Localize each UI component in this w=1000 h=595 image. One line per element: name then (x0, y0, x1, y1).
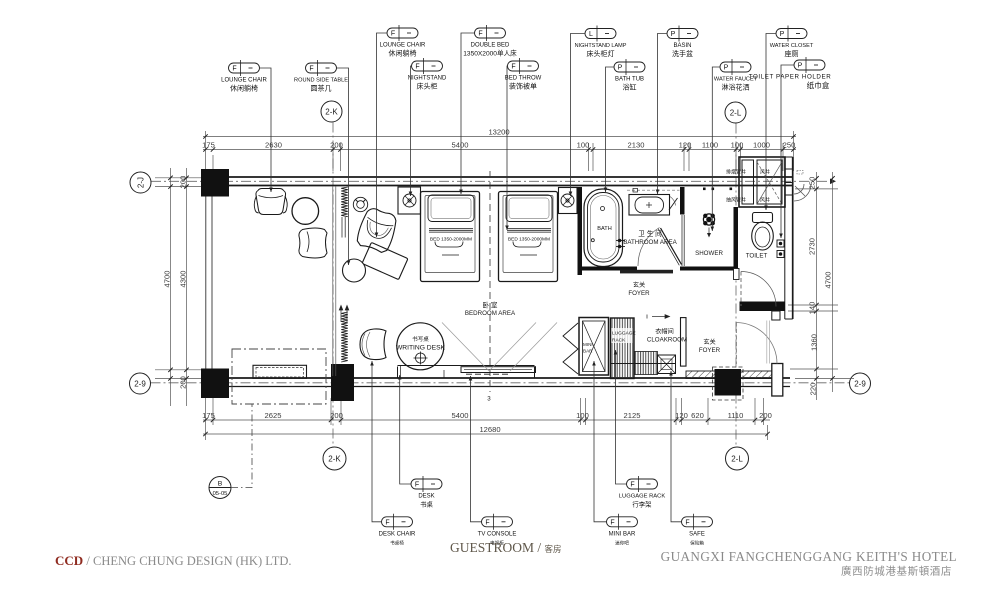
callout NIGHTSTAND LAMP (585, 29, 616, 39)
svg-text:BATH TUB: BATH TUB (615, 77, 644, 83)
svg-text:NIGHTSTAND LAMP: NIGHTSTAND LAMP (575, 43, 627, 49)
svg-text:120: 120 (679, 140, 692, 149)
leader BASIN (658, 34, 668, 195)
svg-text:05-05: 05-05 (213, 491, 228, 497)
leader ROUND SIDE TABLE (337, 68, 349, 265)
svg-text:620: 620 (691, 411, 704, 420)
svg-text:TOILET PAPER HOLDER: TOILET PAPER HOLDER (749, 74, 832, 81)
svg-text:淋浴花洒: 淋浴花洒 (722, 83, 750, 92)
svg-text:保险箱: 保险箱 (690, 539, 704, 546)
svg-text:F: F (630, 482, 634, 489)
svg-text:2125: 2125 (624, 411, 641, 420)
svg-text:175: 175 (202, 411, 215, 420)
wall top exterior (201, 177, 794, 186)
svg-text:RACK: RACK (612, 338, 626, 344)
svg-text:BASIN: BASIN (673, 43, 691, 49)
svg-text:书桌椅: 书桌椅 (390, 539, 404, 546)
desk counter along wall (398, 366, 535, 378)
svg-text:BAR: BAR (583, 349, 593, 354)
curtain arrows bottom (339, 306, 349, 323)
lounge chair 1 (top-left, facing down) (254, 189, 287, 215)
toilet door leaf+arc (741, 272, 776, 307)
callout DOUBLE BED (475, 28, 506, 38)
svg-text:100: 100 (577, 140, 590, 149)
svg-text:2-K: 2-K (328, 454, 341, 463)
curtain coil bottom (341, 312, 348, 362)
svg-text:F: F (485, 519, 489, 526)
svg-text:3: 3 (487, 396, 491, 403)
svg-text:FOYER: FOYER (699, 347, 721, 354)
callout LUGGAGE RACK (627, 479, 658, 489)
svg-text:TOILET: TOILET (746, 253, 768, 260)
luggage rack (611, 318, 635, 379)
svg-text:LUGGAGE: LUGGAGE (612, 331, 636, 337)
svg-text:F: F (415, 482, 419, 489)
nightstand lamp 2 (561, 194, 574, 207)
svg-text:休闲躺椅: 休闲躺椅 (230, 84, 258, 93)
wall entry hatched (corridor wall) (686, 371, 773, 379)
grid bubble 2-L bottom (726, 447, 749, 470)
svg-text:200: 200 (179, 176, 188, 189)
leader BATH TUB (606, 67, 615, 192)
leader DESK CHAIR (372, 361, 382, 522)
svg-text:休闲躺椅: 休闲躺椅 (389, 49, 417, 58)
svg-text:NIGHTSTAND: NIGHTSTAND (408, 76, 447, 82)
nightstand 2 (559, 188, 578, 214)
svg-text:FOYER: FOYER (628, 290, 650, 297)
svg-text:DOUBLE BED: DOUBLE BED (471, 43, 510, 49)
svg-text:卫 生 间: 卫 生 间 (638, 229, 662, 238)
svg-text:MINI BAR: MINI BAR (609, 531, 636, 537)
cloakroom right post (681, 318, 687, 367)
svg-text:床头柜灯: 床头柜灯 (587, 49, 615, 58)
callout BATH TUB (614, 62, 645, 72)
svg-text:BATH: BATH (597, 226, 612, 232)
svg-text:F: F (685, 519, 689, 526)
svg-text:SAFE: SAFE (689, 531, 705, 537)
grid bubble 2-9 bottom-right (850, 373, 871, 394)
minibar cabinet (579, 318, 609, 376)
basin counter (627, 188, 680, 215)
leader MINI BAR (594, 361, 607, 522)
nightstand lamp 1 (403, 194, 416, 207)
svg-text:200: 200 (179, 376, 188, 389)
leader NIGHTSTAND LAMP (571, 34, 586, 197)
stool (small round) (343, 259, 366, 282)
leader LOUNGE CHAIR 1 (260, 68, 272, 192)
svg-text:4700: 4700 (163, 271, 172, 288)
luggage rack label (612, 328, 633, 343)
svg-text:纸巾盒: 纸巾盒 (807, 80, 830, 90)
svg-text:TV CONSOLE: TV CONSOLE (478, 531, 517, 537)
svg-text:F: F (385, 519, 389, 526)
svg-text:行李架: 行李架 (632, 500, 652, 509)
column C3 bottom-middle (331, 364, 354, 401)
wall right exterior (785, 157, 793, 319)
bed 1 (421, 192, 480, 282)
callout WATER FAUCET (720, 62, 751, 72)
svg-text:100: 100 (731, 140, 744, 149)
wall toilet left (734, 207, 739, 271)
bathroom door leaf+arc (638, 228, 682, 267)
TV viewing lines (442, 323, 557, 372)
svg-text:WRITING DESK: WRITING DESK (396, 345, 446, 352)
svg-text:2-K: 2-K (325, 107, 338, 116)
svg-text:BED 1350-2000MM: BED 1350-2000MM (430, 236, 472, 242)
callout LOUNGE CHAIR 1 (229, 63, 260, 73)
svg-text:100: 100 (576, 411, 589, 420)
svg-text:5400: 5400 (452, 411, 469, 420)
svg-text:4300: 4300 (179, 271, 188, 288)
svg-text:MINI: MINI (583, 342, 593, 347)
svg-text:2130: 2130 (628, 140, 645, 149)
column C1 top-left (201, 169, 229, 197)
ottoman rotated (362, 242, 408, 279)
svg-text:BATHROOM AREA: BATHROOM AREA (623, 239, 677, 246)
grid bubble 2-9 bottom-left (130, 373, 151, 394)
svg-text:2-9: 2-9 (134, 379, 146, 388)
svg-text:250: 250 (808, 177, 817, 190)
leader TOILET PAPER HOLDER (781, 65, 794, 238)
svg-text:1110: 1110 (728, 411, 744, 420)
svg-text:B: B (218, 481, 223, 488)
desk chair (half-round) (360, 329, 386, 360)
wall toilet bottom (740, 302, 786, 312)
wall bathroom bottom (582, 267, 638, 271)
svg-text:P: P (671, 31, 676, 38)
svg-text:2630: 2630 (265, 140, 282, 149)
svg-text:5400: 5400 (452, 140, 469, 149)
TV on console (461, 367, 536, 375)
svg-text:风井: 风井 (760, 197, 770, 204)
wall bath/bedroom divider (578, 187, 583, 275)
svg-text:4700: 4700 (824, 272, 833, 289)
grid bubble 2-L top (725, 102, 746, 123)
svg-text:140: 140 (808, 302, 817, 315)
svg-text:2-L: 2-L (730, 108, 742, 117)
svg-text:排烟管井: 排烟管井 (726, 169, 746, 176)
leader TV CONSOLE (471, 376, 482, 522)
threshold bar foyer (620, 270, 673, 274)
svg-text:玄关: 玄关 (633, 281, 645, 289)
shower floor drain (703, 214, 714, 225)
svg-text:P: P (618, 65, 623, 72)
svg-text:LUGGAGE RACK: LUGGAGE RACK (619, 494, 666, 500)
bathtub (584, 189, 625, 267)
svg-text:F: F (610, 519, 614, 526)
dimension lines right vertical (788, 172, 854, 400)
dashed niche rect (detail ref) (232, 349, 326, 404)
svg-text:1000: 1000 (753, 140, 770, 149)
shaft top right (duct shaft) (739, 157, 785, 207)
bed 2 (499, 192, 558, 282)
svg-text:圆茶几: 圆茶几 (311, 84, 332, 93)
grid bubble 2-K bottom (323, 447, 346, 470)
wall shower left upper (680, 187, 685, 215)
svg-text:迷你吧: 迷你吧 (615, 539, 629, 546)
svg-text:床头柜: 床头柜 (417, 82, 438, 91)
svg-text:洗手盆: 洗手盆 (672, 49, 693, 58)
svg-text:200: 200 (330, 140, 343, 149)
callout SAFE (682, 517, 713, 527)
svg-text:ROUND SIDE TABLE: ROUND SIDE TABLE (294, 78, 348, 84)
dimension chain bottom (203, 398, 770, 440)
svg-text:装饰被单: 装饰被单 (509, 82, 537, 91)
svg-text:座厕: 座厕 (785, 49, 799, 58)
svg-text:风井: 风井 (760, 169, 770, 176)
grid bubble 2-K top (321, 101, 342, 122)
axis 2-J horizontal top (151, 123, 850, 448)
wall entry jamb lower-right (772, 364, 783, 397)
svg-text:2-L: 2-L (731, 454, 743, 463)
svg-text:抽风管井: 抽风管井 (726, 197, 746, 204)
callout ROUND SIDE TABLE (306, 63, 337, 73)
nightstand 1 (398, 187, 421, 214)
niche inner rect (253, 365, 307, 378)
svg-text:L: L (589, 31, 593, 38)
svg-text:CCD / CHENG CHUNG DESIGN (HK): CCD / CHENG CHUNG DESIGN (HK) LTD. (55, 553, 292, 568)
drain arrow (708, 228, 710, 236)
ceiling light (double circle) (353, 197, 367, 211)
axis arrow right end (830, 179, 836, 185)
svg-text:1350X2000单人床: 1350X2000单人床 (463, 49, 517, 58)
svg-text:LOUNGE CHAIR: LOUNGE CHAIR (221, 78, 267, 84)
svg-text:BEDROOM AREA: BEDROOM AREA (465, 310, 516, 317)
leader BED THROW (506, 66, 509, 230)
glass facade left (window line) (206, 197, 212, 369)
svg-text:WATER CLOSET: WATER CLOSET (770, 43, 814, 49)
AC duct symbol outside right wall (794, 171, 811, 202)
lounge chair 2 (facing right) (299, 228, 327, 258)
detail bubble B 05-05 (209, 477, 231, 499)
svg-text:廣西防城港基斯頓酒店: 廣西防城港基斯頓酒店 (841, 565, 952, 578)
leader WATER FAUCET (712, 67, 720, 231)
svg-text:1100: 1100 (702, 140, 718, 149)
svg-text:书写桌: 书写桌 (412, 335, 429, 343)
svg-text:BED THROW: BED THROW (505, 76, 542, 82)
svg-text:F: F (478, 31, 482, 38)
writing desk circle (397, 323, 444, 370)
entry door leaf+arc (736, 321, 777, 365)
svg-text:250: 250 (783, 140, 796, 149)
svg-text:F: F (309, 66, 313, 73)
svg-text:P: P (798, 63, 803, 70)
callout DESK (411, 479, 442, 489)
dimension lines left vertical (155, 168, 203, 406)
svg-text:DESK: DESK (418, 494, 434, 500)
leader DESK (400, 375, 411, 484)
wall shower bottom (680, 267, 734, 271)
leader NIGHTSTAND (411, 66, 412, 196)
svg-text:书桌: 书桌 (420, 500, 433, 509)
leader DOUBLE BED (461, 33, 475, 194)
window mullion line (333, 186, 336, 376)
leader LOUNGE CHAIR 2 (377, 33, 388, 237)
callout LOUNGE CHAIR 2 (387, 28, 418, 38)
svg-text:SHOWER: SHOWER (695, 250, 723, 257)
dimension chain top (203, 131, 796, 171)
svg-text:P: P (724, 65, 729, 72)
svg-text:175: 175 (202, 140, 215, 149)
svg-text:GUESTROOM / 客房: GUESTROOM / 客房 (450, 540, 562, 555)
column C2 bottom-left (201, 369, 229, 399)
callout MINI BAR (607, 517, 638, 527)
svg-text:2-J: 2-J (136, 177, 145, 188)
curtain rod lines (342, 217, 345, 238)
callout TOILET PAPER HOLDER (794, 60, 825, 70)
symmetry dashed line between beds (489, 171, 491, 392)
callout BED THROW (508, 61, 539, 71)
leader WATER CLOSET (766, 34, 776, 211)
svg-text:F: F (511, 64, 515, 71)
svg-text:200: 200 (759, 411, 772, 420)
svg-text:220: 220 (809, 383, 818, 396)
callout DESK CHAIR (382, 517, 413, 527)
callout BASIN (667, 29, 698, 39)
round side table (292, 198, 319, 225)
shower glass partition (682, 215, 684, 266)
lounge chair 3 rotated with ottoman (355, 206, 399, 254)
svg-text:F: F (391, 31, 395, 38)
callout WATER CLOSET (776, 29, 807, 39)
safe box (658, 355, 676, 374)
svg-text:2730: 2730 (808, 238, 817, 255)
svg-text:CLOAKROOM: CLOAKROOM (647, 337, 687, 344)
switch marks on bathroom wall (703, 188, 732, 191)
leader B 05-05 (dash-dot) (231, 404, 252, 488)
svg-text:12680: 12680 (479, 425, 500, 434)
svg-text:衣帽间: 衣帽间 (655, 328, 674, 336)
svg-text:DESK CHAIR: DESK CHAIR (379, 531, 416, 537)
svg-text:玄关: 玄关 (703, 338, 715, 346)
callout TV CONSOLE (482, 517, 513, 527)
svg-text:13200: 13200 (488, 127, 509, 136)
svg-text:浴缸: 浴缸 (623, 83, 637, 92)
cloakroom hanger area (611, 352, 676, 375)
grid bubble 2-J top-left (130, 172, 151, 193)
svg-text:F: F (232, 66, 236, 73)
minibar folding door (563, 323, 578, 374)
callout NIGHTSTAND (412, 61, 443, 71)
toilet fixture (752, 213, 774, 251)
leader SAFE (671, 371, 682, 522)
svg-text:BED 1350-2000MM: BED 1350-2000MM (508, 236, 550, 242)
leader LUGGAGE RACK (616, 350, 627, 484)
svg-text:2625: 2625 (265, 411, 282, 420)
svg-text:1360: 1360 (810, 334, 819, 351)
svg-text:F: F (415, 64, 419, 71)
svg-text:2-9: 2-9 (854, 379, 866, 388)
svg-text:P: P (780, 31, 785, 38)
toilet paper holders (777, 240, 784, 258)
svg-text:LOUNGE CHAIR: LOUNGE CHAIR (380, 43, 426, 49)
svg-text:GUANGXI FANGCHENGGANG KEITH'S: GUANGXI FANGCHENGGANG KEITH'S HOTEL (661, 549, 957, 564)
curtain coil top window (341, 187, 348, 217)
column C4 bottom-entry (715, 369, 742, 396)
svg-text:卧 室: 卧 室 (482, 301, 497, 310)
cloakroom top arrow (647, 315, 670, 319)
svg-text:200: 200 (330, 411, 343, 420)
svg-text:120: 120 (675, 411, 688, 420)
wall bottom exterior (201, 378, 790, 387)
